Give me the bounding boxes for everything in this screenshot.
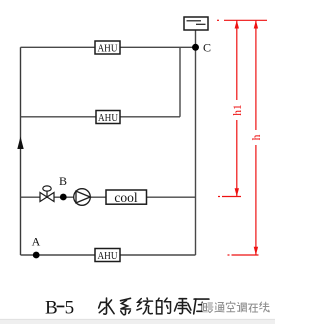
caption hanzi 承 — [175, 299, 191, 314]
watermark "暖通空调在线" (grey with white halo) — [204, 302, 270, 313]
wire: bottom return branch y=255 — [21, 254, 196, 256]
svg-text:5: 5 — [65, 298, 75, 319]
wire: vertical connector from second branch up to top branch — [179, 47, 181, 117]
caption hanzi 压 — [194, 299, 209, 314]
valve V1 with handwheel — [40, 186, 54, 202]
wire: chiller row y=196.5 — [21, 196, 196, 198]
red datum extension line (water level) — [217, 19, 267, 21]
caption hanzi 统 — [137, 298, 153, 314]
wire: left supply riser — [20, 47, 22, 255]
node C — [192, 44, 199, 51]
caption hanzi 的 — [157, 298, 171, 314]
caption hanzi 系 — [121, 298, 131, 314]
caption hanzi 水 — [99, 298, 114, 314]
node A — [33, 252, 40, 259]
dimension h1 (vertical line with arrows) — [235, 20, 239, 196]
svg-text:A: A — [32, 235, 41, 249]
AHU U2 (middle) — [96, 111, 120, 125]
AHU U1 (top) — [95, 41, 120, 55]
expansion tank — [184, 17, 208, 30]
wire: right riser from tank down to bottom return — [195, 30, 197, 256]
bottom edge strip — [0, 320, 275, 324]
svg-text:AHU: AHU — [98, 43, 118, 55]
flow arrow on left riser — [17, 137, 23, 150]
wire: top branch y=47.5 — [21, 46, 196, 48]
svg-text:h1: h1 — [232, 104, 244, 116]
svg-text:B: B — [45, 298, 58, 319]
AHU U3 (bottom) — [95, 249, 120, 263]
svg-text:cool: cool — [114, 190, 137, 205]
svg-text:B: B — [59, 174, 67, 188]
svg-text:AHU: AHU — [98, 250, 118, 262]
pump P1 — [74, 189, 91, 206]
chiller box "cool" — [106, 190, 147, 205]
wire: second branch y=117 — [21, 116, 181, 118]
svg-text:AHU: AHU — [98, 112, 118, 124]
node B — [60, 194, 67, 201]
dimension h (vertical line with arrows) — [254, 20, 258, 255]
svg-text:C: C — [203, 41, 211, 55]
red extension tick at bottom row — [228, 254, 259, 256]
svg-text:h: h — [251, 134, 263, 140]
red extension tick at chiller row — [218, 196, 241, 198]
